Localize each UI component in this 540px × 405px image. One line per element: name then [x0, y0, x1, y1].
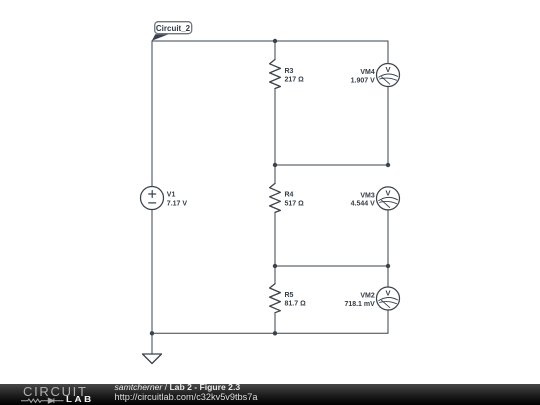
- node junction C right: [386, 264, 390, 268]
- svg-text:VM2: VM2: [360, 293, 375, 300]
- label R3 217 Ω: [285, 68, 305, 83]
- wire middle column R5 to bottom rail: [274, 313, 276, 334]
- node label Circuit_2: [152, 22, 192, 41]
- svg-text:V: V: [385, 289, 390, 298]
- svg-text:R5: R5: [285, 292, 294, 299]
- wire right column above VM4: [387, 41, 389, 64]
- footer title and url text: [115, 383, 258, 403]
- ground: [143, 333, 162, 363]
- svg-text:1.907 V: 1.907 V: [351, 77, 375, 84]
- svg-text:V1: V1: [167, 192, 176, 199]
- label R5 81.7 Ω: [285, 292, 307, 308]
- label V1 7.17 V: [167, 192, 188, 208]
- wire horizontal node C rail: [275, 265, 388, 267]
- svg-text:V: V: [385, 189, 390, 198]
- svg-text:R4: R4: [285, 192, 294, 199]
- svg-text:Circuit_2: Circuit_2: [156, 24, 191, 33]
- label R4 517 Ω: [285, 192, 305, 208]
- voltmeter VM3: [377, 187, 400, 210]
- wire left vertical lower segment: [151, 210, 153, 334]
- wire bottom horizontal: [152, 332, 388, 334]
- wire left vertical upper segment: [151, 41, 153, 187]
- CircuitLab logo wordmark: [23, 386, 88, 397]
- resistor R5: [270, 284, 281, 313]
- wire top horizontal: [152, 40, 388, 42]
- resistor R4: [270, 183, 281, 212]
- svg-text:4.544 V: 4.544 V: [351, 201, 375, 208]
- wire right column node C to VM2: [387, 266, 389, 287]
- node junction B left: [273, 163, 277, 167]
- wire middle column segment above R3: [274, 41, 276, 60]
- label VM4 1.907 V: [351, 69, 375, 84]
- svg-text:517 Ω: 517 Ω: [285, 200, 305, 207]
- node junction B right: [386, 163, 390, 167]
- footer bar: [0, 384, 540, 405]
- wire middle column R3 to node B: [274, 89, 276, 184]
- svg-text:718.1 mV: 718.1 mV: [344, 301, 375, 308]
- svg-text:VM3: VM3: [360, 192, 375, 199]
- wire horizontal node B rail: [275, 164, 388, 166]
- node junction bottom left ground tap: [150, 331, 154, 335]
- voltage source V1: [141, 187, 164, 210]
- voltmeter VM2: [377, 287, 400, 310]
- wire right column VM3 to node C: [387, 210, 389, 266]
- svg-text:V: V: [385, 65, 390, 74]
- svg-text:VM4: VM4: [360, 69, 375, 76]
- wire right column VM2 to bottom rail: [387, 310, 389, 333]
- voltmeter VM4: [377, 64, 400, 87]
- node junction C left: [273, 264, 277, 268]
- voltmeter VM3 V marking: [385, 189, 390, 198]
- resistor R3: [270, 60, 281, 89]
- node junction bottom middle: [273, 331, 277, 335]
- wire right column VM4 to node B: [387, 86, 389, 165]
- svg-text:217 Ω: 217 Ω: [285, 76, 305, 83]
- svg-text:7.17 V: 7.17 V: [167, 200, 188, 207]
- voltmeter VM2 V marking: [385, 289, 390, 298]
- node junction top middle: [273, 39, 277, 43]
- wire middle column R4 to node C: [274, 212, 276, 283]
- svg-text:81.7 Ω: 81.7 Ω: [285, 301, 307, 308]
- voltmeter VM4 V marking: [385, 65, 390, 74]
- label VM2 718.1 mV: [344, 293, 375, 308]
- svg-text:R3: R3: [285, 68, 294, 75]
- CircuitLab logo schematic mark: [0, 384, 110, 405]
- label VM3 4.544 V: [351, 192, 375, 207]
